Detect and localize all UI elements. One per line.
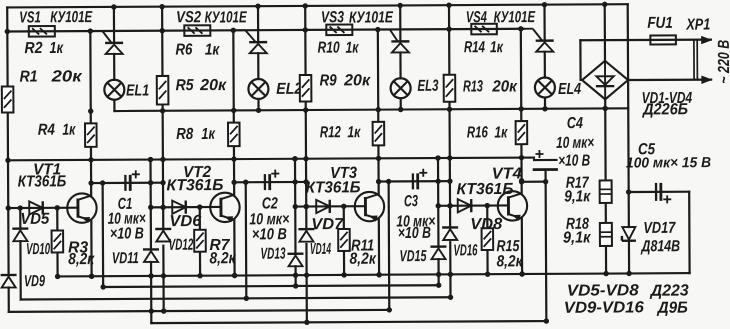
- resistor R11 8,2к: [338, 229, 350, 251]
- label Д814В: [640, 238, 680, 255]
- svg-text:C2: C2: [262, 195, 278, 212]
- label VS3: [321, 9, 344, 26]
- label VS4: [466, 9, 487, 26]
- svg-text:100 мк× 15 В: 100 мк× 15 В: [626, 155, 711, 171]
- label R4 1к: [38, 122, 76, 139]
- svg-text:R16: R16: [467, 124, 488, 141]
- wire lamp anode bus: [114, 108, 628, 111]
- wire stage3 rail: [305, 6, 307, 322]
- wire coupling line L3: [21, 297, 451, 299]
- svg-text:8,2к: 8,2к: [496, 253, 523, 270]
- node cap wire junctions stage 1: [100, 180, 166, 186]
- svg-text:КУ101Е: КУ101Е: [349, 9, 394, 26]
- svg-text:КУ101Е: КУ101Е: [50, 9, 93, 26]
- label VD9: [24, 273, 45, 290]
- node base wire junctions stage 3: [293, 204, 347, 210]
- wire emitter bus to C4: [533, 158, 535, 160]
- label VD7: [311, 216, 344, 233]
- label R3: [68, 239, 88, 256]
- label R5 20к: [176, 77, 227, 94]
- label + of C5: [663, 195, 671, 203]
- wire cap-node column stage 1: [102, 183, 105, 287]
- node top bus cathode VS4: [542, 2, 547, 7]
- wire capacitor wire stage 2: [234, 181, 306, 184]
- label R2 1к: [24, 40, 63, 57]
- label 10 мк× text: [396, 213, 435, 230]
- label 8,2к of R7: [209, 250, 236, 267]
- svg-text:C3: C3: [404, 193, 418, 210]
- node gate junction stage 4: [518, 26, 523, 31]
- label 10мк× of C4: [556, 135, 594, 152]
- wire bridge bottom / R17 R18 column: [604, 99, 607, 273]
- wire bottom rail L0: [58, 273, 690, 276]
- transistor VT3 КТ361Б: [355, 192, 385, 222]
- resistor R5 20к: [157, 76, 169, 105]
- label VS1: [19, 9, 41, 26]
- node L0 junctions stage 3: [341, 272, 381, 278]
- node L0 junctions stage 4: [485, 271, 525, 277]
- svg-text:КУ101Е: КУ101Е: [494, 9, 537, 26]
- node emitter bus dots: [5, 155, 452, 163]
- resistor R3 8,2к: [52, 230, 64, 252]
- node base wire junctions stage 4: [436, 203, 490, 209]
- svg-text:R5: R5: [176, 77, 195, 94]
- diode VD16 Д9Б: [442, 227, 458, 240]
- label VT2: [183, 164, 211, 181]
- node odd column top stage 3: [292, 156, 297, 161]
- label VS2: [176, 9, 201, 26]
- label VD11: [112, 250, 139, 267]
- label VT4: [492, 165, 522, 182]
- label VD10: [26, 241, 50, 258]
- wire R7 column: [199, 207, 202, 276]
- wire top supply bus: [7, 4, 627, 7]
- svg-text:КТ361Б: КТ361Б: [306, 179, 361, 196]
- node lamp bus rail dots: [160, 106, 608, 114]
- diode VD12 Д9Б: [155, 229, 171, 242]
- svg-text:FU1: FU1: [647, 15, 673, 32]
- svg-text:VD5: VD5: [20, 211, 50, 228]
- resistor R13 20к: [444, 75, 456, 102]
- svg-text:VD13: VD13: [260, 246, 285, 263]
- label C2 text: [262, 195, 278, 212]
- node lamp bus EL3: [398, 107, 403, 112]
- svg-text:10 мк×: 10 мк×: [556, 135, 594, 152]
- svg-text:КТ361Б: КТ361Б: [456, 181, 513, 198]
- svg-text:КУ101Е: КУ101Е: [205, 9, 248, 26]
- label КУ101Е of VS4: [494, 9, 537, 26]
- diode VD7 Д223: [316, 200, 330, 213]
- wire C4 emitter wire: [522, 181, 546, 183]
- label КТ361Б of VT2: [166, 177, 223, 194]
- svg-text:VD6: VD6: [169, 213, 201, 230]
- transistor VT1 КТ361Б: [67, 193, 97, 223]
- svg-text:C4: C4: [567, 115, 583, 132]
- svg-text:×10 В: ×10 В: [398, 225, 431, 242]
- wire emitter column stage 2: [233, 30, 234, 275]
- thyristor VS2 КУ101Е: [235, 30, 267, 53]
- svg-text:КТ361Б: КТ361Б: [18, 173, 67, 190]
- node gate bus dots: [5, 26, 452, 34]
- label R1 20к: [20, 68, 83, 85]
- svg-text:1к: 1к: [494, 124, 508, 141]
- svg-text:EL1: EL1: [126, 82, 149, 99]
- svg-text:1к: 1к: [345, 40, 359, 57]
- svg-text:EL2: EL2: [276, 81, 302, 98]
- node L4 dots: [149, 307, 392, 314]
- thyristor VS3 КУ101Е: [380, 29, 410, 52]
- diode VD10 Д9Б: [12, 229, 28, 242]
- resistor R16: [516, 121, 528, 144]
- svg-text:VD16: VD16: [453, 242, 477, 259]
- wire emitter column stage 3: [378, 30, 379, 275]
- node bridge top bus dot: [602, 2, 607, 7]
- node gate junction stage 1: [88, 28, 93, 33]
- svg-text:9,1к: 9,1к: [564, 188, 591, 205]
- label VD9-VD16 Д9Б: [564, 299, 688, 317]
- label + of C2: [271, 170, 279, 178]
- wire base wire stage 1: [8, 207, 78, 210]
- svg-text:R9: R9: [320, 72, 337, 89]
- label ~220В: [716, 40, 730, 84]
- svg-text:Д226Б: Д226Б: [641, 101, 688, 118]
- thyristor VS1 КУ101Е: [92, 31, 123, 54]
- wire C4 column to L5: [545, 182, 548, 321]
- label R15: [496, 238, 520, 255]
- label VD12: [169, 237, 194, 254]
- wire VD10 column: [19, 208, 22, 299]
- node L0 junctions stage 2: [197, 273, 237, 279]
- node odd column top stage 2: [148, 157, 153, 162]
- svg-text:VD5-VD8: VD5-VD8: [567, 282, 639, 299]
- wire bridge top lead: [604, 4, 606, 60]
- svg-text:R6: R6: [175, 42, 192, 59]
- wire cap-node column stage 2: [245, 182, 248, 298]
- wire XP1 bottom wire: [628, 78, 711, 81]
- diode VD9 Д9Б: [1, 275, 17, 288]
- label R17: [566, 175, 590, 192]
- wire emitter column stage 1: [90, 31, 91, 276]
- label 10 мк× text: [108, 211, 146, 228]
- wire gate bus: [7, 29, 523, 32]
- label КУ101Е of VS2: [205, 9, 248, 26]
- svg-text:20к: 20к: [343, 72, 371, 89]
- wire fuse wire: [580, 38, 710, 41]
- fuse FU1: [650, 35, 676, 44]
- label VD15: [399, 248, 427, 265]
- svg-text:R4: R4: [38, 122, 55, 139]
- svg-text:20к: 20к: [491, 78, 517, 95]
- svg-text:R2: R2: [24, 40, 42, 57]
- connector XP1 plug lines: [694, 41, 697, 79]
- thyristor VS4 КУ101Е: [523, 29, 554, 52]
- node odd column top stage 4: [435, 155, 440, 160]
- svg-text:VD17: VD17: [643, 220, 676, 237]
- lamp EL4: [535, 77, 555, 97]
- node L2 dots: [100, 283, 441, 290]
- wire base wire stage 3: [295, 205, 365, 208]
- node top bus cathode VS1: [111, 4, 116, 9]
- svg-text:КТ361Б: КТ361Б: [166, 177, 223, 194]
- node L0 crossing dots: [148, 271, 631, 279]
- wire C4 bottom lead: [544, 170, 546, 182]
- node base wire junctions stage 2: [148, 204, 202, 210]
- label VD16: [453, 242, 477, 259]
- node top bus cathode VS2: [255, 3, 260, 8]
- zener diode VD17 Д814В: [622, 227, 636, 241]
- label КТ361Б of VT3: [306, 179, 361, 196]
- label VD5: [20, 211, 50, 228]
- svg-text:×10 В: ×10 В: [110, 225, 144, 242]
- node L3 dots: [244, 295, 454, 301]
- label ×10 В text: [398, 225, 431, 242]
- label 8,2к of R11: [349, 251, 376, 268]
- label R7: [209, 237, 230, 254]
- wire R11 column: [343, 206, 346, 275]
- label VT1: [33, 161, 61, 178]
- svg-text:~ 220 В: ~ 220 В: [716, 40, 730, 84]
- svg-text:EL4: EL4: [558, 81, 581, 98]
- wire fuse left drop: [579, 40, 581, 80]
- wire emitter column stage 4: [521, 29, 522, 274]
- node lamp bus EL2: [256, 108, 261, 113]
- wire thyristor column VS1: [113, 7, 116, 111]
- lamp EL3: [391, 78, 411, 98]
- wire coupling line L2: [103, 285, 438, 287]
- svg-text:1к: 1к: [205, 42, 220, 59]
- node top bus rail stage 3: [302, 3, 307, 8]
- diode VD5 Д223: [29, 201, 43, 214]
- svg-text:1к: 1к: [49, 40, 63, 57]
- svg-text:20к: 20к: [50, 68, 82, 85]
- svg-text:1к: 1к: [490, 39, 504, 56]
- label C4: [567, 115, 583, 132]
- label + of C3: [419, 169, 427, 177]
- node top bus cathode VS3: [397, 3, 402, 8]
- label ×10В of C4: [558, 153, 590, 170]
- diode VD11 Д9Б: [143, 249, 159, 262]
- label VD5-VD8 Д223: [567, 282, 689, 300]
- rectifier bridge VD1-VD4 Д226Б: [582, 61, 628, 100]
- label EL4: [558, 81, 581, 98]
- node L0 junctions stage 1: [55, 274, 94, 280]
- resistor R10: [326, 24, 352, 35]
- label R9 20к: [320, 72, 371, 89]
- arrow XP1 pin 2: [701, 75, 712, 83]
- node C5 wire dot: [626, 189, 631, 194]
- svg-text:Д223: Д223: [649, 283, 689, 300]
- label КУ101Е of VS1: [50, 9, 93, 26]
- capacitor C4 bottom plate: [534, 168, 556, 171]
- node top bus rail stage 2: [159, 4, 164, 9]
- diode VD8 Д223: [458, 199, 472, 212]
- node emitter column junctions stage 2: [231, 108, 237, 279]
- label 100мк×15В: [626, 155, 711, 171]
- node emitter column junctions stage 3: [376, 107, 382, 278]
- wire thyristor column VS3: [399, 5, 402, 109]
- svg-text:R14: R14: [464, 39, 485, 56]
- svg-text:9,1к: 9,1к: [563, 229, 591, 246]
- label 8,2к of R15: [496, 253, 523, 270]
- resistor R9 20к: [300, 75, 312, 102]
- resistor R7 8,2к: [194, 230, 206, 252]
- lamp EL2: [248, 79, 268, 99]
- wire thyristor column VS4: [543, 5, 546, 109]
- label КТ361Б of VT1: [18, 173, 67, 190]
- resistor R1 20к: [2, 86, 14, 112]
- wire odd diode column stage 3: [294, 159, 297, 286]
- wire emitter bus: [8, 158, 534, 161]
- label EL2: [276, 81, 302, 98]
- wire capacitor wire stage 3: [379, 180, 450, 183]
- svg-text:XP1: XP1: [685, 17, 710, 34]
- wire coupling line L5: [151, 321, 546, 323]
- label ×10 В text: [110, 225, 144, 242]
- label + of C1: [132, 170, 140, 178]
- capacitor C1 10мк: [125, 175, 130, 191]
- node lamp bus EL4: [542, 106, 547, 111]
- capacitor C2 10мк: [265, 174, 270, 190]
- wire R3 column: [56, 208, 59, 277]
- node base wire junctions stage 1: [6, 205, 60, 211]
- wire base wire stage 4: [438, 204, 508, 207]
- wire right vertical rail: [628, 4, 629, 273]
- node gate junction stage 2: [231, 28, 236, 33]
- wire stage2 rail: [162, 7, 164, 311]
- resistor R4: [85, 123, 97, 147]
- wire R15 column: [486, 206, 489, 275]
- svg-text:8,2к: 8,2к: [68, 251, 95, 268]
- label R16 1к: [467, 124, 508, 141]
- label EL1: [126, 82, 149, 99]
- label XP1: [685, 17, 710, 34]
- node L5 dots: [304, 318, 549, 325]
- svg-text:×10 В: ×10 В: [558, 153, 590, 170]
- capacitor C3 10мк: [413, 173, 418, 189]
- wire odd diode column stage 4: [437, 158, 440, 285]
- label VD8: [470, 216, 502, 233]
- diode VD15 Д9Б: [430, 247, 446, 260]
- node gate junction stage 3: [375, 27, 380, 32]
- lamp EL1: [104, 80, 124, 100]
- resistor R15 8,2к: [482, 228, 494, 250]
- svg-text:VD9-VD16: VD9-VD16: [564, 299, 644, 316]
- svg-text:VD12: VD12: [169, 237, 194, 254]
- svg-text:VD15: VD15: [399, 248, 427, 265]
- node top bus rail stage 4: [446, 2, 451, 7]
- resistor R6: [184, 25, 210, 36]
- svg-text:VD11: VD11: [112, 250, 139, 267]
- wire base wire stage 2: [151, 206, 221, 209]
- resistor R18 9,1к: [600, 223, 612, 246]
- node cap wire junctions stage 3: [386, 178, 453, 184]
- svg-text:VD9: VD9: [24, 273, 45, 290]
- svg-text:Д9Б: Д9Б: [656, 300, 688, 317]
- label VD14: [310, 241, 331, 258]
- wire left rail: [7, 7, 9, 311]
- label VD6: [169, 213, 201, 230]
- label 9,1к of R18: [563, 229, 591, 246]
- svg-text:EL3: EL3: [417, 78, 438, 95]
- svg-text:R10: R10: [318, 40, 340, 57]
- svg-text:VD14: VD14: [310, 241, 331, 258]
- wire capacitor wire stage 1: [91, 182, 163, 185]
- diode VD14 Д9Б: [298, 229, 314, 242]
- capacitor C4 top plate: [534, 159, 556, 161]
- diode VD6 Д223: [172, 201, 186, 214]
- label + of C4: [535, 150, 543, 158]
- wire stage4 rail: [449, 5, 451, 297]
- svg-text:1к: 1к: [201, 126, 215, 143]
- svg-text:8,2к: 8,2к: [209, 250, 236, 267]
- label R14 1к: [464, 39, 504, 56]
- node cap wire junctions stage 2: [243, 179, 309, 185]
- label 10 мк× text: [249, 211, 289, 228]
- node C4 wire dots: [519, 179, 548, 185]
- wire odd diode column stage 2: [149, 160, 152, 324]
- diode VD13 Д9Б: [287, 254, 303, 267]
- label VT3: [330, 165, 357, 182]
- svg-text:R1: R1: [20, 69, 38, 86]
- svg-text:VS2: VS2: [176, 9, 201, 26]
- svg-text:VS1: VS1: [19, 9, 41, 26]
- resistor R12: [373, 122, 385, 146]
- label Д226Б: [641, 101, 688, 118]
- node emitter column junctions stage 1: [88, 108, 94, 279]
- svg-text:1к: 1к: [347, 124, 361, 141]
- resistor R8: [228, 123, 240, 147]
- svg-text:Д814В: Д814В: [640, 238, 680, 255]
- label R6 1к: [175, 41, 220, 58]
- svg-text:R12: R12: [320, 124, 341, 141]
- wire coupling line L4: [9, 310, 389, 312]
- transistor VT2 КТ361Б: [210, 193, 240, 223]
- label КУ101Е of VS3: [349, 9, 394, 26]
- label R11: [351, 237, 374, 254]
- label 9,1к of R17: [564, 188, 591, 205]
- svg-text:×10 В: ×10 В: [252, 226, 287, 243]
- label VD17: [643, 220, 676, 237]
- wire cap-node column stage 3: [388, 181, 391, 309]
- arrow XP1 pin 1: [701, 36, 712, 44]
- node base wire crossing dots: [160, 203, 452, 210]
- svg-text:20к: 20к: [199, 77, 227, 94]
- label C3 text: [404, 193, 418, 210]
- node emitter column junctions stage 4: [519, 106, 525, 277]
- wire thyristor column VS2: [257, 6, 260, 110]
- svg-text:VD10: VD10: [26, 241, 50, 258]
- label R10 1к: [318, 39, 360, 56]
- label VD1-VD4: [642, 90, 693, 107]
- label C1 text: [118, 196, 133, 213]
- label EL3: [417, 78, 438, 95]
- svg-text:8,2к: 8,2к: [349, 251, 376, 268]
- wire C5 right drop: [688, 192, 691, 273]
- svg-text:R8: R8: [176, 126, 193, 143]
- wire C5 wire: [629, 191, 689, 194]
- label R13 20к: [463, 78, 518, 95]
- label 8,2к of R3: [68, 251, 95, 268]
- label R18: [566, 216, 589, 233]
- label ×10 В text: [252, 226, 287, 243]
- transistor VT4 КТ361Б: [498, 191, 528, 221]
- label R8 1к: [176, 126, 215, 143]
- svg-text:1к: 1к: [62, 122, 76, 139]
- label КТ361Б of VT4: [456, 181, 513, 198]
- label FU1: [647, 15, 673, 32]
- resistor R14: [471, 24, 497, 35]
- label R12 1к: [320, 124, 361, 141]
